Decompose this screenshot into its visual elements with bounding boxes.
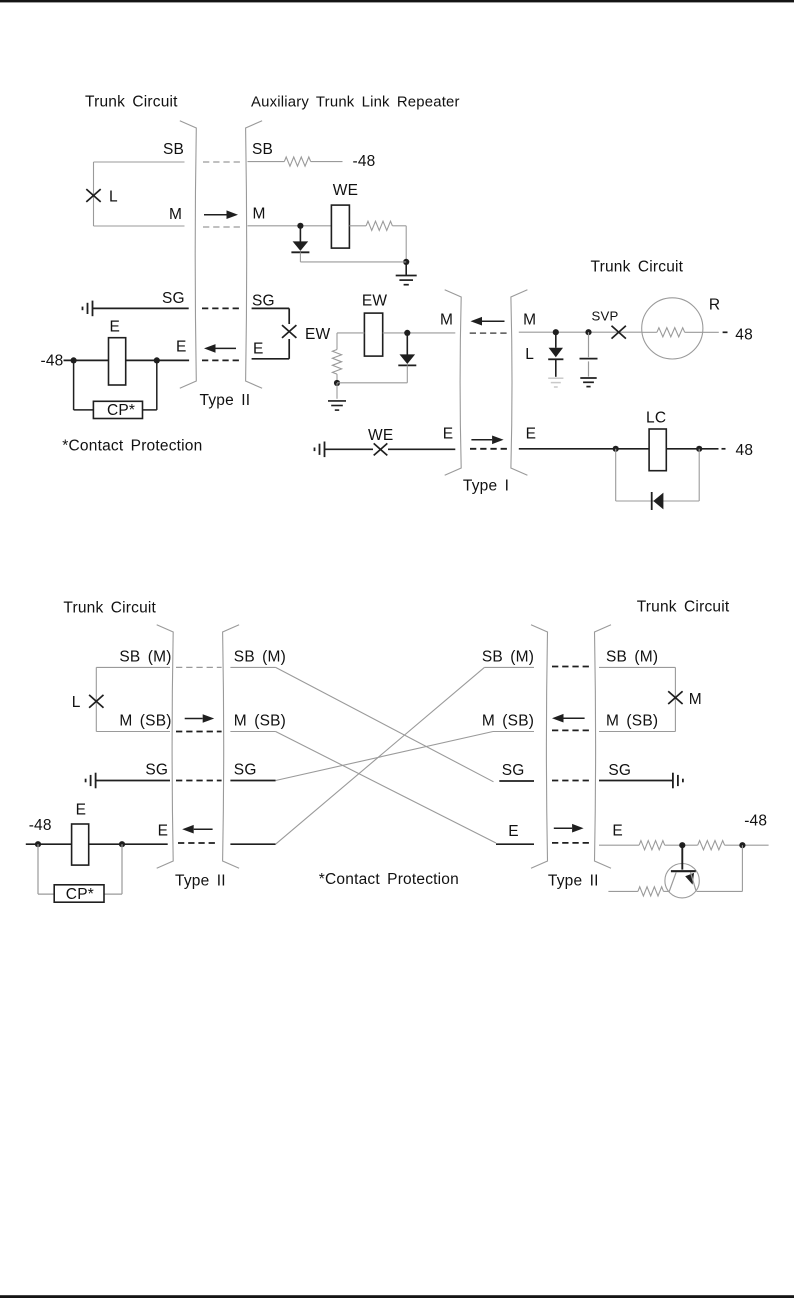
svg-text:E: E <box>508 823 519 840</box>
svg-text:E: E <box>443 426 454 443</box>
svg-text:SG: SG <box>608 762 631 779</box>
svg-text:R: R <box>709 297 720 314</box>
svg-text:M: M <box>253 206 266 223</box>
svg-text:-48: -48 <box>29 817 52 834</box>
svg-text:M: M <box>169 206 182 223</box>
svg-text:E: E <box>176 339 187 356</box>
svg-text:SB: SB <box>163 141 184 158</box>
svg-text:EW: EW <box>305 326 331 343</box>
svg-text:E: E <box>110 319 121 336</box>
svg-text:E: E <box>76 802 87 819</box>
svg-text:M (SB): M (SB) <box>606 713 658 730</box>
svg-text:Type II: Type II <box>200 392 251 409</box>
svg-text:Type II: Type II <box>175 873 226 890</box>
svg-text:M (SB): M (SB) <box>482 713 534 730</box>
svg-text:*Contact Protection: *Contact Protection <box>319 871 459 888</box>
svg-text:*Contact Protection: *Contact Protection <box>62 438 202 455</box>
svg-text:L: L <box>109 189 118 206</box>
svg-text:-48: -48 <box>41 352 64 369</box>
svg-text:SB: SB <box>252 141 273 158</box>
svg-text:M: M <box>689 691 702 708</box>
svg-text:M: M <box>523 311 536 328</box>
svg-text:WE: WE <box>333 182 358 199</box>
svg-text:E: E <box>526 426 537 443</box>
svg-text:SG: SG <box>145 762 168 779</box>
svg-text:LC: LC <box>646 410 666 427</box>
svg-text:SG: SG <box>502 762 525 779</box>
svg-text:M: M <box>440 311 453 328</box>
svg-text:48: 48 <box>736 442 754 459</box>
svg-text:CP*: CP* <box>66 886 94 903</box>
svg-text:M (SB): M (SB) <box>234 713 286 730</box>
svg-text:-48: -48 <box>353 153 376 170</box>
svg-text:L: L <box>525 346 534 363</box>
svg-text:Trunk Circuit: Trunk Circuit <box>63 600 156 617</box>
svg-text:SB (M): SB (M) <box>482 649 534 666</box>
svg-text:Type II: Type II <box>548 873 599 890</box>
svg-text:E: E <box>253 340 264 357</box>
svg-text:WE: WE <box>368 427 393 444</box>
svg-text:Trunk Circuit: Trunk Circuit <box>85 94 178 111</box>
svg-text:SB (M): SB (M) <box>119 649 171 666</box>
svg-text:Trunk Circuit: Trunk Circuit <box>637 599 730 616</box>
svg-text:SB (M): SB (M) <box>234 649 286 666</box>
svg-text:M (SB): M (SB) <box>119 713 171 730</box>
svg-text:EW: EW <box>362 292 388 309</box>
svg-text:Trunk Circuit: Trunk Circuit <box>591 259 684 276</box>
svg-text:SVP: SVP <box>592 308 619 323</box>
svg-text:L: L <box>72 694 81 711</box>
svg-text:CP*: CP* <box>107 402 135 419</box>
svg-text:-48: -48 <box>744 813 767 830</box>
svg-text:SG: SG <box>162 290 185 307</box>
svg-text:E: E <box>158 823 169 840</box>
svg-text:E: E <box>612 823 623 840</box>
svg-text:SG: SG <box>234 762 257 779</box>
svg-text:SG: SG <box>252 293 275 310</box>
svg-text:48: 48 <box>735 326 753 343</box>
svg-text:SB (M): SB (M) <box>606 649 658 666</box>
svg-text:Type I: Type I <box>463 477 509 494</box>
svg-text:Auxiliary Trunk Link Repeater: Auxiliary Trunk Link Repeater <box>251 95 460 111</box>
